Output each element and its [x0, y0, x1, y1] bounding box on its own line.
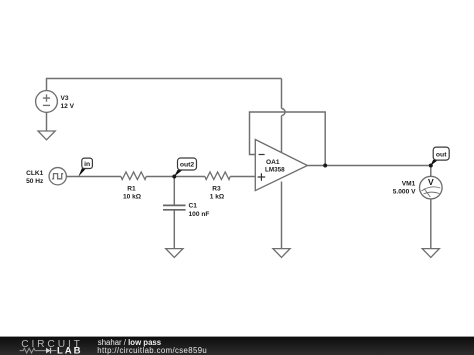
ground below V3 [38, 131, 55, 140]
voltmeter VM1 [420, 176, 443, 199]
ground below C1 [166, 249, 183, 258]
svg-text:R3: R3 [212, 186, 221, 193]
clock source CLK1 [49, 168, 66, 185]
op-amp triangle body [255, 140, 307, 191]
svg-text:OA1: OA1 [266, 159, 280, 166]
wire op-amp V+ supply vertical upper [281, 79, 283, 109]
node feedback junction [323, 164, 327, 168]
op-amp inverting input minus sign [259, 154, 265, 156]
svg-text:V3: V3 [61, 95, 69, 102]
wire R1 to node out2 [146, 176, 174, 178]
wire out node to VM1 [430, 166, 432, 177]
svg-text:out2: out2 [180, 162, 195, 169]
footer title text [98, 338, 161, 347]
svg-text:LAB: LAB [57, 346, 82, 355]
capacitor C1 [163, 205, 186, 209]
svg-text:5.000 V: 5.000 V [393, 189, 416, 196]
wire node out2 to R3 [174, 176, 205, 178]
flag out [430, 147, 449, 166]
wire feedback loop [250, 112, 326, 166]
svg-text:V: V [428, 177, 434, 187]
resistor R1 [121, 172, 146, 180]
wire op-amp V+ supply vertical lower [281, 116, 283, 153]
svg-text:100 nF: 100 nF [189, 211, 210, 218]
wire R3 to op-amp non-inverting input [230, 176, 255, 178]
ground below op-amp [273, 249, 290, 258]
wire op-amp V- supply to ground [281, 182, 283, 249]
svg-text:CLK1: CLK1 [26, 170, 44, 177]
svg-text:VM1: VM1 [402, 180, 416, 187]
voltmeter circle [420, 176, 443, 199]
wire hop over feedback [282, 109, 285, 116]
wire top rail V3 to op-amp supply [47, 79, 282, 91]
svg-text:50 Hz: 50 Hz [26, 178, 44, 185]
flag out2 [174, 158, 197, 177]
CircuitLab logo [0, 337, 95, 355]
svg-text:C1: C1 [189, 203, 198, 210]
footer bar [0, 336, 474, 355]
footer url text [97, 346, 207, 355]
voltage source V3 [36, 91, 58, 113]
wire CLK1 to R1 [66, 176, 121, 178]
resistor R3 [205, 172, 230, 180]
svg-text:10 kΩ: 10 kΩ [123, 194, 142, 201]
wire out2 to C1 top [173, 177, 175, 206]
svg-text:in: in [84, 161, 90, 168]
wire op-amp output to out node [307, 165, 430, 167]
voltmeter scale arcs and needle [422, 187, 441, 191]
wire C1 bottom to ground [173, 210, 175, 249]
node out2 junction [172, 175, 176, 179]
op-amp OA1 [255, 140, 307, 191]
svg-text:out: out [436, 151, 447, 158]
op-amp non-inverting input plus sign [258, 173, 266, 181]
svg-text:LM358: LM358 [265, 167, 285, 174]
svg-text:1 kΩ: 1 kΩ [210, 194, 225, 201]
ground below VM1 [422, 249, 439, 258]
flag in [78, 158, 92, 177]
wire VM1 to ground [430, 199, 432, 249]
wire V3 to ground [46, 112, 48, 131]
svg-text:R1: R1 [127, 186, 136, 193]
node out junction [429, 164, 433, 168]
svg-text:12 V: 12 V [61, 103, 75, 110]
